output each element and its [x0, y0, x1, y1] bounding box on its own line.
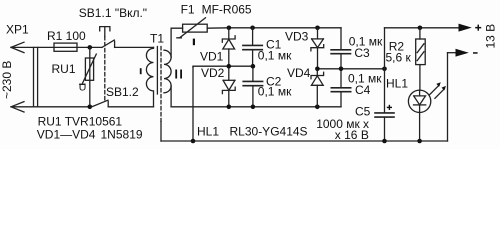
node B (RU1/SB1.2 junction) [88, 105, 93, 110]
capacitor C5 [375, 105, 394, 141]
svg-text:HL1: HL1 [386, 77, 408, 91]
svg-text:RU1 TVR10561: RU1 TVR10561 [38, 115, 123, 129]
label winding II [175, 70, 182, 79]
capacitor C4 [331, 69, 350, 107]
svg-text:T1: T1 [150, 32, 164, 46]
wire SB1.1 to T1 primary [115, 46, 154, 48]
wire DC plus rail [317, 68, 384, 70]
varistor RU1 [80, 47, 97, 106]
diode VD3 [311, 28, 324, 69]
node minus-HL1 [417, 139, 422, 144]
node DCp-C34 [339, 67, 344, 72]
wire screen to minus rail [160, 122, 162, 142]
svg-text:VD4: VD4 [287, 66, 311, 80]
output plus arrow [459, 24, 472, 32]
wire secondary bottom to AC2 rail [170, 86, 172, 107]
svg-text:~230 В: ~230 В [0, 61, 14, 99]
capacitor C1 [243, 28, 262, 66]
svg-text:VD2: VD2 [201, 66, 225, 80]
transformer T1 primary winding I [146, 47, 153, 106]
resistor R2 [416, 28, 426, 90]
svg-text:0,1 мк: 0,1 мк [258, 85, 292, 99]
svg-text:SB1.1 "Вкл.": SB1.1 "Вкл." [79, 6, 147, 20]
wire AC1 top rail [207, 27, 341, 29]
wire secondary top to fuse [171, 28, 183, 57]
node DCm-VD junction [227, 64, 232, 69]
node A (R1/RU1/SB1.1 junction) [88, 45, 93, 50]
diode VD1 [222, 28, 235, 66]
diode VD4 [311, 69, 324, 107]
node DCp-R2 [418, 26, 423, 31]
node AC2-C2 [251, 105, 256, 110]
resistor R1 [54, 43, 77, 51]
transformer T1 core [156, 47, 158, 95]
svg-text:HL1: HL1 [197, 125, 219, 139]
label minus [473, 52, 478, 54]
svg-text:0,1 мк: 0,1 мк [258, 49, 292, 63]
transformer T1 secondary winding II [164, 50, 171, 93]
svg-text:VD1: VD1 [200, 50, 224, 64]
transformer T1 screen [160, 47, 162, 122]
wire DC plus riser [384, 28, 386, 112]
wire SB1.2 to T1 primary bottom [108, 106, 153, 108]
svg-text:х 16 В: х 16 В [335, 128, 369, 142]
svg-text:XP1: XP1 [6, 23, 29, 37]
wire bottom primary [11, 106, 91, 108]
output minus arrow [448, 49, 469, 57]
wire DC plus top segment [385, 27, 459, 29]
node AC1-C1 [250, 26, 255, 31]
node DCp-VD34 [315, 67, 320, 72]
svg-text:MF-R065: MF-R065 [202, 2, 252, 16]
switch SB1.2 [91, 100, 108, 107]
node AC2-VD2 [227, 105, 232, 110]
svg-text:SB1.2: SB1.2 [106, 85, 139, 99]
svg-text:5,6 к: 5,6 к [386, 51, 412, 65]
node AC1-VD1 [227, 26, 232, 31]
wire bottom minus rail [161, 140, 448, 142]
plug XP1 [11, 42, 38, 112]
svg-text:R1 100: R1 100 [47, 29, 86, 43]
node DCp-riser [382, 67, 387, 72]
svg-text:RU1: RU1 [52, 62, 76, 76]
capacitor C3 [331, 28, 350, 69]
node minus-riser [191, 139, 196, 144]
diode VD2 [222, 66, 235, 107]
wire minus output riser [447, 53, 449, 141]
svg-text:C4: C4 [355, 83, 371, 97]
svg-text:VD3: VD3 [285, 30, 309, 44]
svg-text:1N5819: 1N5819 [101, 128, 143, 142]
fuse F1 [177, 18, 207, 45]
svg-text:C3: C3 [354, 46, 370, 60]
capacitor C2 [243, 66, 262, 107]
node AC1-VD3 [315, 26, 320, 31]
svg-text:VD1—VD4: VD1—VD4 [37, 128, 96, 142]
svg-text:F1: F1 [181, 2, 195, 16]
wire top primary [11, 46, 102, 48]
wire AC2 rail [171, 106, 341, 108]
wire DC minus rail [193, 65, 253, 68]
label winding I [140, 68, 142, 74]
node DCm-C junction [251, 64, 256, 69]
svg-text:13 В: 13 В [484, 24, 498, 49]
node minus-C5 [382, 139, 387, 144]
svg-text:U: U [79, 82, 87, 94]
node AC2-VD4 [315, 105, 320, 110]
switch SB1.1 [100, 27, 115, 102]
svg-text:RL30-YG414S: RL30-YG414S [230, 125, 308, 139]
LED HL1 [408, 82, 446, 141]
label plus [475, 25, 481, 31]
